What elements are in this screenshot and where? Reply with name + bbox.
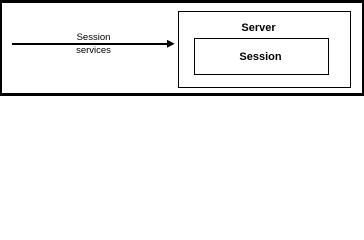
- outer border frame: [0, 0, 364, 3]
- label: Server: [208, 23, 309, 34]
- outer border frame right: [362, 0, 364, 96]
- box: Session: [194, 38, 329, 75]
- outer border frame left: [0, 0, 2, 96]
- box: Server: [178, 11, 351, 88]
- label: Session (bold): [210, 52, 311, 63]
- wire: arrow shaft: [12, 43, 169, 45]
- outer border frame bottom: [0, 93, 364, 96]
- label: Session services: [43, 31, 144, 57]
- arrowhead: [166, 39, 176, 49]
